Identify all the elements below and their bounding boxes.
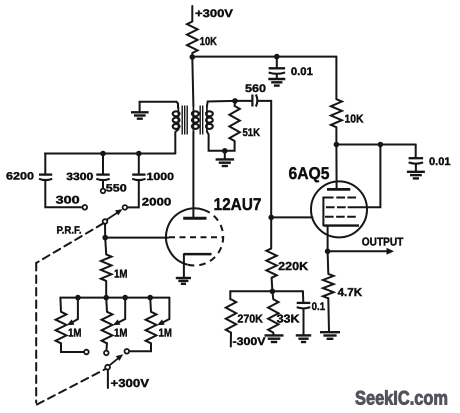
terminal pot3 bottom (125, 349, 130, 354)
power +300V supply lead (top) (191, 6, 193, 22)
wire B+ rail (top horizontal) (192, 56, 336, 58)
svg-text:-300V: -300V (233, 336, 267, 348)
svg-text:270K: 270K (237, 313, 263, 325)
ground (12AU7 cathode) (176, 277, 191, 279)
svg-text:1M: 1M (114, 268, 128, 280)
node pot1 wiper tap (75, 295, 81, 301)
wire pot bus (60, 297, 169, 299)
wire pivot to grid node (104, 224, 106, 238)
potentiometer 1M (second) (105, 298, 108, 312)
terminal 2000 (range contact) (127, 180, 138, 208)
tube 6AQ5 screen grid row2 (dashed) (326, 206, 346, 208)
wire grid node to 12AU7 grid (105, 237, 168, 239)
wire +300V feed (bottom) (107, 370, 109, 388)
wire 10K bottom to B+ node (191, 53, 193, 57)
tube 6AQ5 screen grid row1 (dashed) (336, 197, 356, 199)
svg-text:0.1: 0.1 (312, 301, 326, 313)
potentiometer 1M (third) (149, 298, 152, 312)
svg-text:6200: 6200 (6, 171, 34, 183)
node pot bus center (103, 295, 109, 301)
tube 6AQ5 plate bar (327, 188, 350, 191)
linkage dashed (left vertical) (35, 263, 37, 403)
switch pivot P.R.F. (103, 219, 108, 224)
wire screen rail (horizontal) (336, 144, 415, 146)
node screen tap (378, 142, 384, 148)
tube 6AQ5 beam plates (323, 198, 332, 226)
transformer T1 left (grid) winding (177, 102, 179, 108)
tube 6AQ5 cathode bar (324, 224, 359, 226)
terminal pot1 bottom (84, 350, 89, 355)
svg-text:6AQ5: 6AQ5 (289, 164, 330, 183)
node 12AU7 grid junction (102, 235, 108, 241)
svg-text:300: 300 (56, 194, 80, 206)
tube 12AU7 plate bar (183, 217, 206, 220)
resistor 10K (6AQ5 plate load) (331, 99, 342, 127)
switch arm +300V selector (109, 356, 120, 365)
svg-text:OUTPUT: OUTPUT (362, 236, 404, 248)
wire B+ rail corner down (335, 57, 337, 100)
transformer T1 core (left laminations) (181, 106, 183, 135)
svg-text:0.01: 0.01 (291, 66, 313, 78)
resistor 1M (grid leak) (105, 238, 106, 255)
svg-text:10K: 10K (200, 36, 218, 48)
svg-text:51K: 51K (243, 127, 261, 139)
capacitor 6200 (44, 154, 46, 175)
transformer T1 middle (plate) winding (192, 106, 194, 133)
node pot3 top tap (147, 295, 153, 301)
svg-text:P.R.F.: P.R.F. (57, 225, 82, 237)
svg-text:12AU7: 12AU7 (214, 195, 262, 214)
potentiometer 1M (first) (59, 298, 62, 312)
switch arm P.R.F. selector (107, 211, 120, 220)
node pot2 wiper tap (122, 295, 128, 301)
wire grid node to 6AQ5 grid (271, 216, 312, 218)
node 3300 tap (100, 151, 106, 157)
ground (far right) (407, 171, 425, 173)
tube 6AQ5 cathode lead (327, 226, 329, 252)
linkage dashed (upper diagonal) (36, 223, 103, 263)
linkage dashed (lower diagonal) (37, 369, 106, 405)
transformer T1 core (right laminations) (199, 106, 201, 135)
capacitor 0.01 (far right) (415, 145, 417, 158)
capacitor 0.01 (top middle bypass) (276, 57, 278, 68)
ground (below 33K) (265, 334, 284, 336)
ground (below 0.1) (296, 334, 311, 336)
svg-text:3300: 3300 (66, 171, 93, 183)
tube 12AU7 envelope (solid left arc) (166, 208, 204, 264)
node 1000 tap (136, 151, 142, 157)
wire 10K to plate node (335, 127, 337, 145)
svg-text:+300V: +300V (195, 8, 234, 20)
svg-text:1M: 1M (114, 328, 128, 340)
capacitor 560 (coupling) (235, 100, 252, 102)
tube 12AU7 envelope (dashed right arc) (188, 210, 223, 266)
switch pivot +300V (105, 365, 110, 370)
wire OUTPUT with arrow (328, 250, 389, 252)
wire grid-winding to cap bus (45, 153, 175, 155)
wire cap to ground (far right) (415, 165, 417, 172)
tube 12AU7 cathode lead (183, 254, 185, 277)
tube 6AQ5 envelope (311, 181, 367, 237)
transformer T1 right (feedback) winding (206, 107, 208, 132)
resistor 10K (B+ feed to oscillator) (187, 22, 198, 54)
svg-text:SeekIC.com: SeekIC.com (355, 388, 448, 410)
resistor 51K (234, 101, 236, 106)
wire B+ node down to primary (192, 57, 193, 106)
svg-text:10K: 10K (345, 113, 365, 125)
resistor 33K (271, 291, 274, 299)
node 6AQ5 grid junction (268, 215, 274, 221)
wire primary bottom to 12AU7 plate (192, 132, 194, 217)
svg-text:550: 550 (106, 182, 127, 194)
capacitor 3300 (102, 154, 104, 175)
node 51K top junction (232, 98, 238, 104)
wire bias bus (230, 290, 303, 292)
resistor 4.7K (cathode) (327, 251, 330, 274)
svg-text:+300V: +300V (111, 378, 150, 390)
node B+ rail junction (190, 54, 196, 60)
capacitor 1000 (138, 154, 140, 175)
terminal 300 (range contact) (45, 180, 82, 207)
wire cap to ground stub (276, 75, 278, 79)
node bias bus junction (270, 289, 276, 295)
svg-text:4.7K: 4.7K (338, 287, 363, 299)
wire 560 to 6AQ5 grid node (258, 101, 271, 248)
tube 6AQ5 screen lead (349, 145, 381, 208)
svg-text:1000: 1000 (147, 171, 175, 183)
node cathode output junction (325, 249, 331, 255)
tube 6AQ5 control grid (dashed) (325, 216, 357, 218)
svg-text:560: 560 (245, 83, 266, 95)
tube 12AU7 grid (dashed) (169, 236, 223, 238)
wire plate node to 6AQ5 plate (335, 145, 337, 189)
svg-text:1M: 1M (68, 328, 82, 340)
svg-text:2000: 2000 (142, 197, 172, 209)
ground (below 51K) (224, 151, 226, 159)
node plate/screen rail junction (334, 142, 340, 148)
resistor 270K (229, 291, 231, 299)
terminal 550 (range contact) (102, 180, 104, 189)
ground (transformer grid winding) (140, 102, 177, 112)
tube 12AU7 cathode bar (184, 253, 212, 256)
svg-text:1M: 1M (159, 328, 173, 340)
node 0.01 bypass tap (274, 54, 280, 60)
svg-text:220K: 220K (278, 261, 309, 273)
ground (below 4.7K) (320, 331, 340, 333)
resistor 220K (266, 248, 276, 277)
svg-text:33K: 33K (277, 313, 301, 325)
node winding/51K ground junction (222, 148, 228, 154)
terminal pot2 bottom (104, 351, 109, 356)
svg-text:0.01: 0.01 (429, 156, 451, 168)
capacitor 0.1 (302, 291, 304, 302)
ground (below 0.01 top middle) (268, 78, 285, 80)
